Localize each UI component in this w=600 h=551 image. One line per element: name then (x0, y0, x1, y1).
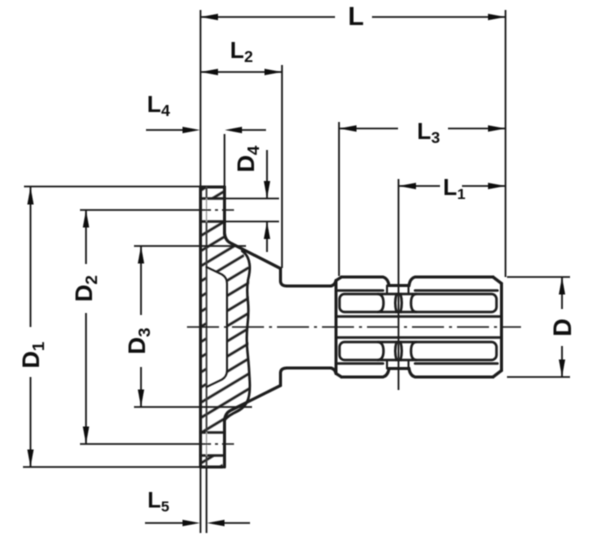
flange bottom edge (201, 466, 223, 469)
ext line D2 top (80, 209, 199, 211)
arrow D bottom (559, 360, 565, 378)
dim line D3 upper (140, 246, 142, 315)
bolt hole top upper edge (201, 197, 225, 200)
dim line D4 upper (266, 150, 268, 199)
groove edge verticals upper (387, 286, 409, 295)
ext line groove center (398, 179, 400, 390)
ext line D bottom (507, 376, 570, 378)
spline lower band right segment end (411, 342, 416, 360)
neck bottom (287, 367, 331, 370)
arrow L5 right (207, 520, 225, 526)
shaft top outline with groove (342, 277, 494, 286)
arrow L4 (183, 127, 201, 133)
centerlines (187, 210, 521, 444)
ext line D top (507, 276, 570, 278)
shaft right face (500, 284, 503, 371)
neck top (287, 285, 331, 288)
spline lower band (340, 342, 497, 360)
ext line flange face down (200, 467, 202, 533)
hub section cut boundary wavy line (225, 251, 250, 420)
flange top edge (201, 186, 225, 189)
dim line L right (372, 16, 506, 18)
flange plate right face (206, 187, 208, 467)
arrow L right (488, 14, 506, 20)
hub right face bottom (281, 368, 288, 386)
arrow L3 right (488, 125, 506, 131)
spline upper band left segment end (378, 294, 384, 312)
ext line D2 bottom (80, 443, 199, 445)
shaft left face (335, 281, 338, 374)
shaft right chamfer top (493, 277, 502, 284)
hub bore recess outline (207, 267, 228, 387)
arrow D top (559, 277, 565, 295)
spline inner line upper (337, 315, 500, 318)
ext line D4 top (225, 198, 280, 200)
dim line L left (201, 16, 336, 18)
arrow D1 bottom (27, 450, 33, 468)
dim line L1 left (399, 185, 440, 187)
arrow D4 top (264, 181, 270, 199)
ext line flange face up (200, 10, 202, 187)
ext line D1 bottom (23, 466, 200, 468)
arrow L left (201, 14, 219, 20)
wire (201, 187, 502, 467)
shaft bottom outline with groove (342, 369, 494, 378)
arrow L1 right (488, 183, 506, 189)
dim line D upper (561, 277, 563, 309)
ext line D1 top (24, 186, 200, 188)
shaft left chamfer top (336, 277, 342, 281)
shaft left chamfer bottom (336, 374, 342, 378)
ext line hub right face up (281, 65, 283, 268)
arrow D3 bottom (138, 390, 144, 408)
dim line L3 left (339, 128, 398, 130)
spline upper edge line (337, 289, 383, 292)
spline lower edge line right part (415, 362, 498, 365)
hatch flange top rim section (201, 187, 225, 199)
arrow L3 left (339, 125, 357, 131)
flange left face (199, 187, 202, 467)
spline upper band right segment end (411, 294, 416, 312)
spline lower edge line (337, 362, 383, 365)
dim line L3 right (448, 128, 506, 130)
arrow D2 bottom (83, 427, 89, 445)
bolt hole bottom upper edge (201, 431, 225, 434)
hub cone top slant (225, 233, 281, 269)
arrow L4 right (225, 127, 242, 133)
spline upper band waist curves (395, 294, 402, 312)
dim line D2 upper (85, 210, 87, 264)
ext line shaft end (505, 10, 507, 277)
bolt hole top centerline (199, 209, 238, 211)
shaft right chamfer bottom (493, 371, 502, 378)
arrow D3 top (138, 246, 144, 264)
bolt hole bottom centerline (199, 443, 236, 445)
dim line D lower (561, 346, 563, 377)
neck fillet to shoulder top (331, 281, 336, 287)
dim line L5 right tail (224, 522, 250, 524)
dim line L4 right tail (240, 129, 266, 131)
ext line D3 bottom (134, 406, 252, 408)
dim line L4 left (146, 129, 184, 131)
boss right face top (223, 187, 226, 234)
bolt hole bottom lower edge (201, 454, 223, 457)
arrow L2 left (201, 69, 219, 75)
neck fillet to shoulder bottom (331, 368, 336, 374)
hatch hub main section (201, 222, 250, 433)
dim line L2 (201, 71, 283, 73)
ext line plate right face down (206, 467, 208, 533)
svg-text:L: L (348, 1, 364, 31)
dim line D2 lower (85, 313, 87, 444)
dim line D1 lower (30, 377, 32, 467)
dim line D1 upper (30, 187, 32, 327)
arrow L1 left (399, 183, 417, 189)
dim line L5 left (145, 522, 183, 524)
ext line boss face up (224, 134, 226, 187)
spline inner line lower (337, 336, 500, 339)
bolt hole top lower edge (201, 220, 225, 223)
arrow D1 top (27, 187, 33, 205)
dim line D3 lower (140, 367, 142, 407)
boss right face bottom (223, 420, 226, 468)
main axis centerline (187, 326, 521, 328)
spline upper edge line right part (415, 289, 498, 292)
hatch flange bottom rim section (201, 456, 223, 468)
spline upper band (340, 294, 497, 312)
arrow L2 right (265, 69, 283, 75)
dim line D4 lower (266, 222, 268, 253)
ext line D3 top (134, 245, 246, 247)
arrow D2 top (83, 210, 89, 228)
spline lower band waist curves (395, 342, 402, 360)
arrow D4 bottom (264, 222, 270, 240)
arrow L5 left (183, 520, 201, 526)
svg-text:D: D (549, 318, 577, 336)
dim line L1 right (462, 185, 506, 187)
ext line D4 bottom (225, 221, 280, 223)
hub right face top (281, 269, 288, 287)
spline lower band left segment end (378, 342, 384, 360)
hub cone bottom slant (225, 386, 281, 421)
ext line spline start (338, 122, 340, 276)
groove edge verticals lower (387, 360, 409, 369)
